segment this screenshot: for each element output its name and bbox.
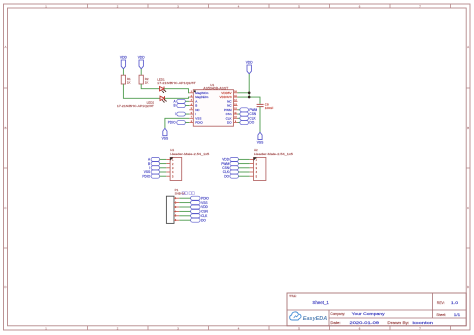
svg-text:B: B <box>173 104 175 108</box>
net port DO to P1 pin 6 <box>174 218 206 222</box>
svg-text:17-21S/BHC-AP1Q2/3T: 17-21S/BHC-AP1Q2/3T <box>157 81 196 85</box>
svg-text:koonton: koonton <box>413 320 434 325</box>
svg-text:1K: 1K <box>145 81 149 85</box>
junction at VDD3V3 node <box>248 96 251 99</box>
wire LED2 cathode to U1 pin 2 MagDECn <box>165 97 190 98</box>
svg-text:VDD: VDD <box>246 60 254 64</box>
svg-text:17-21S/BHC-AP1Q2/3T: 17-21S/BHC-AP1Q2/3T <box>117 104 154 108</box>
wire U1 pin 15 VDD3V3 to C8 <box>238 97 261 104</box>
net port B to H1 pin 2 <box>148 162 170 166</box>
svg-text:1.0: 1.0 <box>451 300 459 305</box>
net port A to H1 pin 1 <box>148 157 170 161</box>
net port VDD to P1 pin 3 <box>174 205 209 209</box>
net port PDIO (U1 pin 8) <box>168 121 189 125</box>
EasyEDA logo <box>290 312 328 322</box>
svg-text:A: A <box>467 45 469 49</box>
wire VDD to R1 <box>122 69 124 75</box>
wire U1 pin 16 VDD5V <box>238 92 250 94</box>
wire LED1 cathode to U1 pin 1 MagINCn <box>164 89 189 93</box>
resistor R1 1K <box>121 75 131 84</box>
svg-text:VDD: VDD <box>120 55 128 59</box>
svg-text:Your Company: Your Company <box>352 311 385 316</box>
net port VSS to P1 pin 2 <box>174 201 207 205</box>
net port CSN to H2 pin 3 <box>222 166 253 170</box>
junction at VDD5V node <box>248 92 251 95</box>
connector P1 SHB-6A <box>166 188 194 223</box>
svg-text:1K: 1K <box>127 81 131 85</box>
svg-text:DO: DO <box>249 121 254 125</box>
svg-text:Header-Male-2.54_1x5: Header-Male-2.54_1x5 <box>170 152 209 156</box>
net port CLK to H2 pin 4 <box>223 170 254 174</box>
power flag VDD (R1 branch) <box>120 55 128 69</box>
svg-text:PDIO: PDIO <box>195 121 203 125</box>
net port CLK to P1 pin 5 <box>174 214 208 218</box>
ground flag VSS (C8) <box>257 132 264 144</box>
net port DO (U1) <box>238 121 255 125</box>
net port CLK (U1) <box>238 116 257 120</box>
U1 right pins 16-9 with pin numbers <box>220 91 238 125</box>
LED LED1 17-21S/BHC-AP1Q2/3T <box>157 77 196 93</box>
net port B (U1 pin 4) <box>173 104 189 108</box>
ground flag VSS (U1 pin 7) <box>162 128 169 140</box>
wire VDD down to U1 supply pins <box>248 74 250 97</box>
connector H1 Header-Male-2.54_1x5 <box>170 148 210 180</box>
svg-text:CSN: CSN <box>201 210 208 214</box>
net port VDD to H2 pin 1 <box>222 157 253 161</box>
wire C8 to VSS <box>259 107 261 133</box>
svg-text:2020-01-09: 2020-01-09 <box>350 320 380 325</box>
U1 left pins 1-8 with pin numbers <box>189 91 208 125</box>
svg-text:PDIO: PDIO <box>142 174 150 178</box>
title block <box>287 293 466 326</box>
svg-text:SHB-6A: SHB-6A <box>175 192 186 196</box>
svg-text:Drawn By:: Drawn By: <box>387 321 409 325</box>
net port DO to H2 pin 5 <box>224 174 253 178</box>
IC U1 AS5040B-ASST magnetic encoder <box>193 83 233 126</box>
svg-text:VSS: VSS <box>201 201 207 205</box>
svg-text:PDIO: PDIO <box>201 196 209 200</box>
svg-text:1/1: 1/1 <box>454 313 460 317</box>
net port I to H1 pin 3 <box>149 166 170 170</box>
net port A (U1 pin 3) <box>173 99 189 103</box>
net port I (U1 pin 6) <box>175 112 190 116</box>
H2 pin numbers 1-5 <box>256 158 258 179</box>
power flag VDD (R2 branch) <box>138 55 146 69</box>
svg-text:EasyEDA: EasyEDA <box>303 316 327 322</box>
svg-text:REV:: REV: <box>437 301 445 305</box>
net port CSN to P1 pin 4 <box>174 209 209 213</box>
svg-text:TITLE:: TITLE: <box>289 294 296 298</box>
net port PWM (U1) <box>238 108 258 112</box>
svg-text:B: B <box>467 126 469 130</box>
svg-text:VSS: VSS <box>257 141 264 145</box>
wire U1 pin 7 VSS to ground flag <box>165 118 189 128</box>
wire R1 to LED2 anode <box>123 84 160 98</box>
capacitor C8 100nF <box>257 103 274 111</box>
net port CSN (U1) <box>238 112 257 116</box>
svg-text:VDD: VDD <box>138 55 146 59</box>
svg-text:100nF: 100nF <box>265 106 274 110</box>
svg-text:CLK: CLK <box>201 214 208 218</box>
net port PDIO to H1 pin 5 <box>142 174 170 178</box>
wire VDD to R2 <box>140 69 142 75</box>
net port PWM to H2 pin 2 <box>221 162 253 166</box>
wire R2 to LED1 anode <box>141 84 159 89</box>
svg-text:A: A <box>4 45 6 49</box>
net port PDIO to P1 pin 1 <box>174 196 209 200</box>
svg-text:Company:: Company: <box>330 312 345 316</box>
svg-text:DO: DO <box>227 121 232 125</box>
H1 pin numbers 1-5 <box>172 158 174 179</box>
svg-text:Sheet_1: Sheet_1 <box>312 300 329 305</box>
svg-text:DO: DO <box>201 218 206 222</box>
svg-text:AS5040B-ASST: AS5040B-ASST <box>203 86 228 90</box>
svg-text:I: I <box>175 112 176 116</box>
svg-text:VSS: VSS <box>162 137 169 141</box>
P1 pin numbers 1-6 <box>175 197 177 222</box>
LED LED2 17-21S/BHC-AP1Q2/3T <box>117 96 167 108</box>
svg-text:Header-Male-2.54_1x5: Header-Male-2.54_1x5 <box>254 152 293 156</box>
svg-text:VDD: VDD <box>201 205 208 209</box>
net port VSS to H1 pin 4 <box>144 170 170 174</box>
svg-text:DO: DO <box>224 174 229 178</box>
connector H2 Header-Male-2.54_1x5 <box>254 148 294 180</box>
svg-text:Sheet:: Sheet: <box>436 313 446 317</box>
svg-text:B: B <box>4 126 6 130</box>
svg-text:PDIO: PDIO <box>168 121 176 125</box>
svg-text:Date:: Date: <box>330 321 340 325</box>
resistor R2 1K <box>139 75 149 84</box>
power flag VDD (U1 supply) <box>246 60 254 74</box>
